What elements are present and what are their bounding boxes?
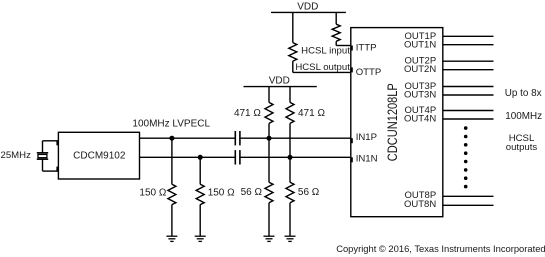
svg-text:VDD: VDD: [269, 76, 290, 87]
svg-text:OTTP: OTTP: [356, 67, 382, 78]
svg-text:25MHz: 25MHz: [1, 150, 32, 161]
svg-text:IN1N: IN1N: [356, 153, 378, 164]
svg-text:56 Ω: 56 Ω: [298, 187, 320, 198]
svg-text:150 Ω: 150 Ω: [139, 187, 166, 198]
svg-text:56 Ω: 56 Ω: [241, 187, 263, 198]
svg-text:471 Ω: 471 Ω: [298, 108, 325, 119]
svg-text:outputs: outputs: [506, 142, 538, 153]
svg-text:OUT3N: OUT3N: [404, 90, 436, 101]
svg-text:OUT8N: OUT8N: [404, 199, 436, 210]
svg-text:OUT4N: OUT4N: [404, 114, 436, 125]
svg-text:Copyright © 2016, Texas Instru: Copyright © 2016, Texas Instruments Inco…: [336, 243, 545, 254]
svg-text:HCSL output: HCSL output: [295, 62, 350, 73]
svg-text:150 Ω: 150 Ω: [208, 187, 235, 198]
svg-text:CDCM9102: CDCM9102: [73, 151, 126, 162]
svg-text:100MHz LVPECL: 100MHz LVPECL: [132, 119, 210, 130]
svg-text:IN1P: IN1P: [356, 132, 377, 143]
svg-text:OUT1N: OUT1N: [404, 39, 436, 50]
svg-text:ITTP: ITTP: [356, 43, 377, 54]
svg-text:VDD: VDD: [297, 2, 318, 13]
svg-text:Up to 8x: Up to 8x: [505, 88, 542, 99]
svg-text:OUT2N: OUT2N: [404, 64, 436, 75]
svg-text:CDCUN1208LP: CDCUN1208LP: [385, 83, 400, 161]
svg-text:471 Ω: 471 Ω: [234, 108, 261, 119]
svg-text:100MHz: 100MHz: [505, 111, 542, 122]
svg-text:HCSL input: HCSL input: [301, 45, 350, 56]
